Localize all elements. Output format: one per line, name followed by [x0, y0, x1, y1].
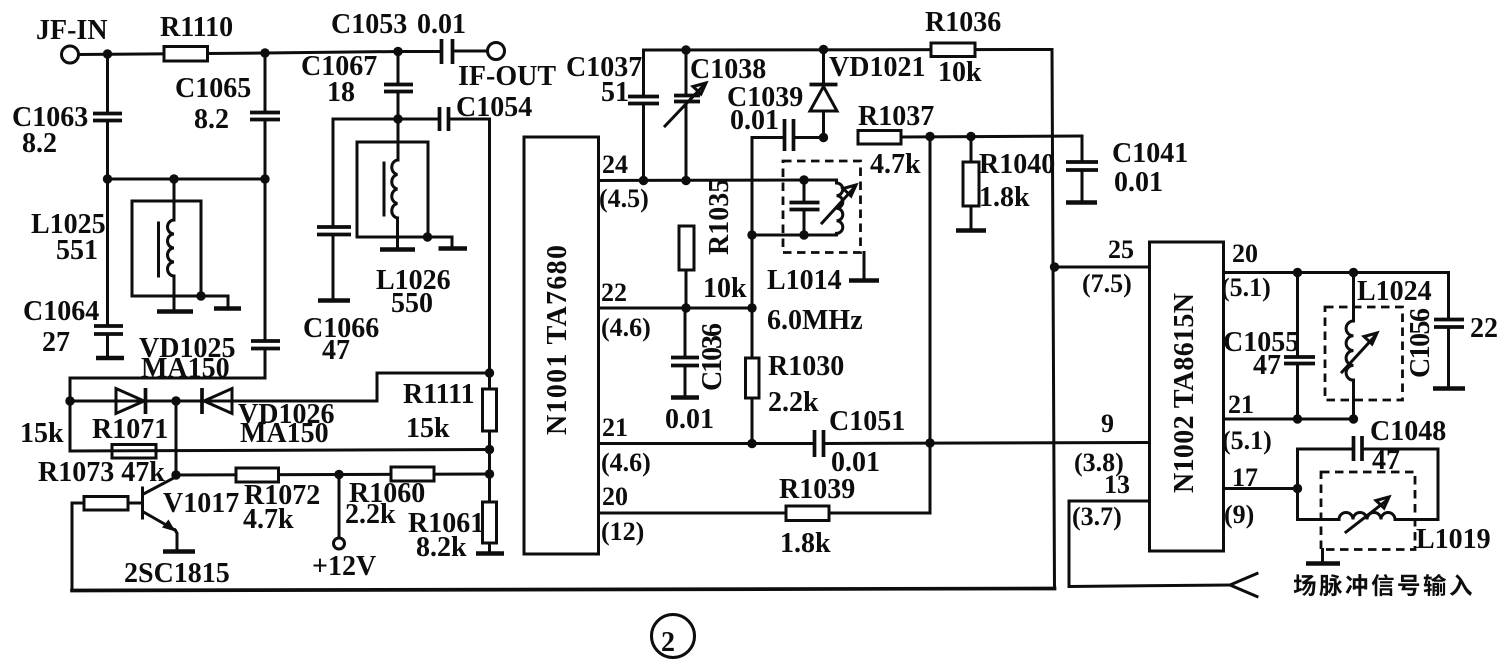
svg-text:47: 47: [322, 335, 350, 366]
svg-text:R1040: R1040: [979, 149, 1055, 180]
node R1035 bottom on pin22: [681, 303, 690, 312]
pin 20 label: [601, 482, 644, 546]
svg-text:MA150: MA150: [240, 418, 329, 449]
inductor L1026 shielded tank: [357, 119, 451, 319]
node C1055 bottom: [1293, 414, 1302, 423]
svg-text:8.2: 8.2: [22, 128, 57, 159]
wire pin20 line: [599, 512, 931, 515]
capacitor C1055: [1223, 273, 1315, 420]
ground second L1025: [214, 306, 241, 311]
pin 20 label N1002: [1221, 239, 1271, 302]
wire base row to R1072: [176, 474, 490, 475]
svg-text:21: 21: [1228, 390, 1254, 419]
node pin25 tee: [1050, 262, 1059, 271]
node R1072 row right: [485, 469, 494, 478]
svg-text:R1111: R1111: [403, 379, 475, 410]
pin 13 label: [1072, 470, 1130, 531]
svg-text:N1002 TA8615N: N1002 TA8615N: [1169, 293, 1200, 493]
svg-text:550: 550: [391, 288, 433, 319]
svg-text:C1056: C1056: [1405, 308, 1436, 378]
svg-text:L1014: L1014: [767, 265, 842, 296]
pin 24 label: [599, 150, 649, 213]
svg-text:(9): (9): [1224, 500, 1254, 529]
wire right vertical x489: [488, 119, 491, 389]
svg-text:18: 18: [327, 77, 355, 108]
node between diodes: [171, 396, 180, 405]
svg-text:R1071: R1071: [92, 414, 168, 445]
svg-text:25: 25: [1108, 235, 1134, 264]
wire diode row up-step to R1111: [377, 373, 490, 401]
node VD1021 top: [819, 45, 828, 54]
svg-text:15k: 15k: [20, 418, 64, 449]
svg-text:(5.1): (5.1): [1222, 426, 1272, 455]
capacitor L1014 internal: [790, 180, 820, 235]
svg-text:R1030: R1030: [768, 351, 844, 382]
capacitor C1056: [1405, 308, 1498, 389]
wire L1014 bottom row: [752, 234, 837, 237]
svg-text:(3.7): (3.7): [1072, 502, 1122, 531]
capacitor C1063: [12, 54, 122, 179]
terminal IF-OUT: [458, 43, 556, 93]
ground L1014: [849, 253, 879, 281]
svg-text:L1019: L1019: [1416, 524, 1491, 555]
node x752 tank tap: [747, 230, 756, 239]
node R1111 top: [485, 368, 494, 377]
svg-text:13: 13: [1104, 470, 1130, 499]
svg-text:C1048: C1048: [1370, 416, 1446, 447]
capacitor C1066: [303, 119, 379, 366]
diode VD1026 MA150: [202, 388, 334, 449]
node C1038 top: [681, 45, 690, 54]
svg-text:20: 20: [602, 482, 628, 511]
label field pulse signal input (CJK): [1294, 574, 1472, 596]
wire pin17 stub: [1224, 487, 1298, 490]
capacitor C1037: [566, 50, 659, 181]
diode VD1025 MA150: [116, 333, 235, 414]
resistor R1111: [403, 379, 497, 502]
svg-text:27: 27: [42, 327, 70, 358]
resistor R1072: [236, 468, 320, 535]
svg-text:51: 51: [601, 77, 629, 108]
resistor R1035: [679, 179, 747, 308]
wire main top-left: [79, 52, 398, 55]
wire horizontal row y179: [108, 178, 266, 181]
node VD1021 bottom: [819, 133, 828, 142]
svg-text:(4.5): (4.5): [599, 184, 649, 213]
svg-text:C1051: C1051: [829, 406, 905, 437]
inductor L1014 tank dashed shield: [767, 161, 863, 336]
capacitor C1036: [665, 308, 728, 435]
pin 21 label: [601, 413, 651, 477]
node C1038 bottom / R1035 top: [681, 176, 690, 185]
wire y378 row: [70, 378, 265, 401]
capacitor unlabeled on x265: [251, 179, 280, 378]
capacitor C1041: [1066, 136, 1188, 203]
wire pin25 line: [1055, 266, 1151, 269]
pin 21 label N1002: [1222, 390, 1272, 455]
node R1040 top: [966, 132, 975, 141]
svg-text:15k: 15k: [406, 413, 450, 444]
wire pin21 row: [1224, 418, 1354, 421]
resistor R1039: [779, 474, 855, 559]
svg-text:21: 21: [602, 413, 628, 442]
capacitor C1064: [23, 179, 124, 358]
svg-text:4.7k: 4.7k: [870, 149, 921, 180]
node L1024 top: [1349, 268, 1358, 277]
svg-text:6.0MHz: 6.0MHz: [767, 305, 863, 336]
node x930 pin9 line: [925, 438, 934, 447]
svg-text:R1073 47k: R1073 47k: [38, 457, 165, 488]
IC N1002 TA8615N: [1150, 242, 1224, 551]
svg-text:+12V: +12V: [312, 551, 376, 582]
svg-text:1.8k: 1.8k: [780, 528, 831, 559]
resistor R1061: [408, 502, 504, 563]
wire left rail down: [69, 401, 72, 451]
node L1025 box corner: [196, 291, 205, 300]
svg-text:9: 9: [1101, 409, 1114, 438]
IC N1001 TA7680: [524, 137, 599, 554]
node C1067 top: [393, 47, 402, 56]
node y119 row: [393, 114, 402, 123]
capacitor C1039: [727, 82, 824, 151]
diode VD1021: [810, 50, 926, 138]
capacitor C1038 variable: [665, 50, 766, 181]
resistor R1040: [956, 137, 1055, 231]
svg-text:22: 22: [601, 278, 627, 307]
resistor R1110: [160, 12, 233, 61]
svg-text:(7.5): (7.5): [1082, 269, 1132, 298]
svg-text:C1036: C1036: [697, 323, 728, 391]
arrow input open: [1230, 574, 1257, 597]
svg-text:10k: 10k: [703, 273, 747, 304]
svg-text:N1001 TA7680: N1001 TA7680: [542, 245, 573, 435]
svg-text:22: 22: [1470, 313, 1498, 344]
svg-text:VD1021: VD1021: [829, 52, 925, 83]
svg-text:8.2k: 8.2k: [416, 532, 467, 563]
svg-text:R1036: R1036: [925, 7, 1001, 38]
resistor R1071: [92, 414, 168, 458]
node x930 top: [925, 132, 934, 141]
wire vertical diode junction to base node: [175, 401, 178, 475]
svg-text:R1037: R1037: [858, 101, 934, 132]
capacitor C1067: [301, 51, 413, 119]
node pin24 C1037: [639, 176, 648, 185]
capacitor C1051: [815, 406, 1151, 478]
inductor L1019 variable dashed: [1298, 472, 1491, 564]
capacitor C1065: [175, 53, 280, 179]
ground second L1026: [439, 246, 468, 251]
svg-text:(4.6): (4.6): [601, 313, 651, 342]
svg-text:C1041: C1041: [1112, 138, 1188, 169]
svg-text:2: 2: [661, 627, 675, 658]
transistor V1017: [124, 477, 239, 590]
wire pin24 line: [599, 179, 805, 183]
wire R1039 right to pin9 line: [929, 137, 932, 514]
svg-text:C1065: C1065: [175, 73, 251, 104]
resistor R1037: [858, 101, 1082, 180]
svg-text:R1110: R1110: [160, 12, 233, 43]
wire bottom rail: [72, 589, 1055, 591]
node L1026 box corner: [423, 232, 432, 241]
svg-text:V1017: V1017: [163, 488, 239, 519]
supply +12V: [312, 475, 376, 583]
wire step to second ground: [201, 296, 228, 307]
wire y119 row: [333, 118, 437, 121]
node L1024 bottom: [1349, 414, 1358, 423]
pin 17 label N1002: [1224, 463, 1258, 529]
svg-text:24: 24: [602, 150, 628, 179]
node L1014 bottom: [799, 230, 808, 239]
svg-text:2.2k: 2.2k: [768, 387, 819, 418]
node pin17 loop: [1293, 484, 1302, 493]
svg-text:0.01: 0.01: [730, 105, 779, 136]
svg-text:8.2: 8.2: [194, 104, 229, 135]
svg-text:C1053: C1053: [331, 9, 407, 40]
node C1055 top: [1293, 268, 1302, 277]
pin 22 label: [601, 278, 651, 342]
capacitor C1053: [331, 9, 487, 64]
wire pin20 row: [1224, 273, 1449, 320]
svg-text:R1035: R1035: [704, 179, 735, 255]
inductor L1025 shielded tank: [31, 179, 201, 312]
node R1030 bottom on pin21: [747, 439, 756, 448]
svg-text:0.01: 0.01: [1114, 167, 1163, 198]
figure number circled 2: [652, 615, 695, 659]
node R1071 row right: [485, 445, 494, 454]
svg-text:(12): (12): [601, 517, 644, 546]
svg-text:JF-IN: JF-IN: [36, 15, 108, 46]
terminal JF-IN: [36, 15, 108, 63]
node diode row left: [65, 396, 74, 405]
resistor R1073: [72, 497, 141, 591]
svg-text:47: 47: [1253, 350, 1281, 381]
wire pin22 line: [599, 307, 753, 310]
svg-text:2SC1815: 2SC1815: [124, 558, 230, 589]
node junction at C1065: [260, 48, 269, 57]
inductor L1014 coil variable: [804, 180, 856, 235]
svg-text:R1039: R1039: [779, 474, 855, 505]
resistor R1030: [746, 351, 845, 444]
wire diode row: [70, 400, 377, 403]
capacitor C1048 loop: [1298, 416, 1447, 520]
svg-text:0.01: 0.01: [665, 404, 714, 435]
pin 9 label: [1074, 409, 1124, 477]
wire R1071 row y451: [70, 450, 490, 452]
svg-text:L1024: L1024: [1357, 276, 1432, 307]
node base row: [171, 470, 180, 479]
svg-text:C1064: C1064: [23, 296, 99, 327]
svg-text:(5.1): (5.1): [1221, 273, 1271, 302]
wire step to second ground: [428, 237, 453, 247]
inductor L1024 variable dashed: [1325, 273, 1432, 420]
wire top row right: [644, 50, 1055, 589]
svg-text:0.01: 0.01: [417, 9, 466, 40]
svg-text:2.2k: 2.2k: [345, 499, 396, 530]
wire vertical x752: [752, 138, 783, 444]
resistor R1036: [925, 7, 1001, 88]
wire pin13 feedback: [1069, 501, 1230, 587]
pin 25 label: [1082, 235, 1134, 298]
svg-text:C1038: C1038: [690, 54, 766, 85]
node junction at C1063: [103, 49, 112, 58]
node junctions on y179: [103, 174, 112, 183]
svg-text:10k: 10k: [938, 57, 982, 88]
svg-text:20: 20: [1232, 239, 1258, 268]
resistor R1060: [345, 467, 434, 530]
node L1014 top: [799, 175, 808, 184]
svg-text:1.8k: 1.8k: [979, 182, 1030, 213]
node x752 pin22: [747, 303, 756, 312]
svg-text:(4.6): (4.6): [601, 448, 651, 477]
svg-text:551: 551: [56, 235, 98, 266]
node +12V tap: [334, 470, 343, 479]
svg-text:4.7k: 4.7k: [243, 504, 294, 535]
wire pin21 line: [599, 442, 814, 445]
svg-text:IF-OUT: IF-OUT: [458, 61, 556, 92]
capacitor C1054: [440, 92, 533, 131]
